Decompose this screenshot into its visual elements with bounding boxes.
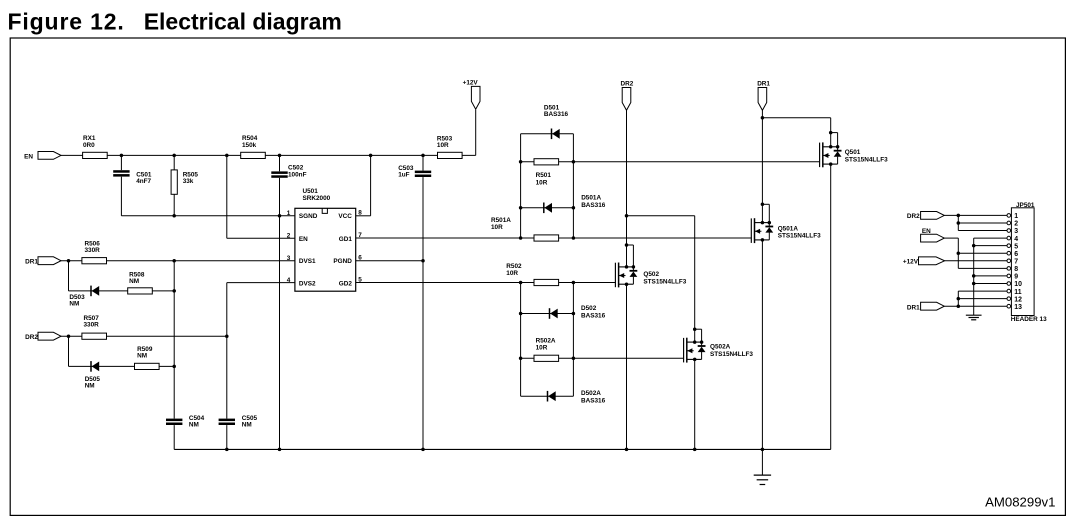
- svg-text:SRK2000: SRK2000: [303, 195, 331, 202]
- svg-text:NM: NM: [129, 278, 139, 285]
- svg-text:150k: 150k: [242, 142, 257, 149]
- svg-text:2: 2: [287, 233, 291, 240]
- svg-text:10R: 10R: [437, 142, 449, 149]
- svg-text:8: 8: [1014, 266, 1018, 273]
- svg-text:BAS316: BAS316: [544, 111, 569, 118]
- svg-text:STS15N4LLF3: STS15N4LLF3: [845, 156, 888, 163]
- svg-text:R502: R502: [506, 263, 522, 270]
- svg-text:DR2: DR2: [907, 213, 920, 220]
- svg-text:4nF7: 4nF7: [136, 178, 151, 185]
- svg-text:+12V: +12V: [903, 258, 919, 265]
- svg-text:10R: 10R: [491, 224, 503, 231]
- svg-text:12: 12: [1014, 296, 1022, 303]
- svg-text:DR2: DR2: [25, 334, 38, 341]
- svg-text:8: 8: [358, 210, 362, 217]
- svg-text:330R: 330R: [85, 247, 101, 254]
- svg-text:Electrical diagram: Electrical diagram: [144, 9, 342, 35]
- svg-text:HEADER 13: HEADER 13: [1011, 316, 1047, 323]
- svg-text:STS15N4LLF3: STS15N4LLF3: [710, 351, 753, 358]
- svg-text:13: 13: [1014, 304, 1022, 311]
- svg-text:3: 3: [287, 255, 291, 262]
- svg-text:VCC: VCC: [338, 213, 352, 220]
- svg-text:R502A: R502A: [536, 338, 556, 345]
- svg-text:9: 9: [1014, 274, 1018, 281]
- svg-text:10: 10: [1014, 281, 1022, 288]
- svg-text:D502A: D502A: [581, 390, 601, 397]
- svg-text:4: 4: [1014, 236, 1018, 243]
- svg-text:BAS316: BAS316: [581, 312, 606, 319]
- svg-text:BAS316: BAS316: [581, 202, 606, 209]
- svg-text:3: 3: [1014, 228, 1018, 235]
- svg-text:EN: EN: [24, 153, 33, 160]
- svg-text:0R0: 0R0: [83, 142, 95, 149]
- svg-text:NM: NM: [69, 301, 79, 308]
- svg-text:100nF: 100nF: [288, 171, 307, 178]
- svg-text:Figure 12.: Figure 12.: [8, 9, 125, 35]
- svg-text:JP501: JP501: [1016, 202, 1035, 209]
- svg-text:5: 5: [1014, 243, 1018, 250]
- svg-text:DR1: DR1: [757, 80, 770, 87]
- svg-text:EN: EN: [922, 228, 931, 235]
- svg-text:7: 7: [1014, 259, 1018, 266]
- svg-text:NM: NM: [189, 422, 199, 429]
- svg-text:SGND: SGND: [299, 213, 318, 220]
- svg-text:EN: EN: [299, 236, 308, 243]
- svg-text:10R: 10R: [506, 270, 518, 277]
- svg-text:DVS1: DVS1: [299, 258, 316, 265]
- svg-text:1: 1: [287, 210, 291, 217]
- svg-text:NM: NM: [242, 422, 252, 429]
- svg-text:4: 4: [287, 277, 291, 284]
- svg-text:GD1: GD1: [339, 236, 353, 243]
- svg-text:STS15N4LLF3: STS15N4LLF3: [778, 233, 821, 240]
- svg-text:Q502A: Q502A: [710, 344, 731, 351]
- svg-text:11: 11: [1014, 289, 1021, 296]
- svg-text:10R: 10R: [536, 345, 548, 352]
- svg-text:Q501: Q501: [845, 149, 861, 156]
- svg-text:DR1: DR1: [907, 304, 920, 311]
- svg-text:STS15N4LLF3: STS15N4LLF3: [643, 278, 686, 285]
- svg-text:1uF: 1uF: [398, 172, 409, 179]
- svg-text:330R: 330R: [84, 322, 100, 329]
- svg-text:Q501A: Q501A: [778, 225, 799, 232]
- svg-text:R501A: R501A: [491, 217, 511, 224]
- svg-text:6: 6: [358, 255, 362, 262]
- svg-text:PGND: PGND: [333, 258, 352, 265]
- svg-text:+12V: +12V: [463, 80, 479, 87]
- svg-text:R501: R501: [536, 172, 552, 179]
- svg-text:2: 2: [1014, 221, 1018, 228]
- svg-text:6: 6: [1014, 251, 1018, 258]
- svg-text:BAS316: BAS316: [581, 397, 606, 404]
- svg-text:DR2: DR2: [621, 80, 634, 87]
- svg-text:1: 1: [1014, 213, 1018, 220]
- svg-text:33k: 33k: [183, 178, 194, 185]
- svg-text:NM: NM: [85, 382, 95, 389]
- svg-text:DVS2: DVS2: [299, 280, 316, 287]
- svg-text:Q502: Q502: [643, 271, 659, 278]
- svg-text:NM: NM: [137, 352, 147, 359]
- svg-text:D502: D502: [581, 305, 597, 312]
- svg-text:D501A: D501A: [581, 195, 601, 202]
- svg-text:AM08299v1: AM08299v1: [985, 495, 1055, 510]
- svg-text:10R: 10R: [536, 180, 548, 187]
- svg-text:GD2: GD2: [339, 280, 353, 287]
- svg-text:DR1: DR1: [25, 259, 38, 266]
